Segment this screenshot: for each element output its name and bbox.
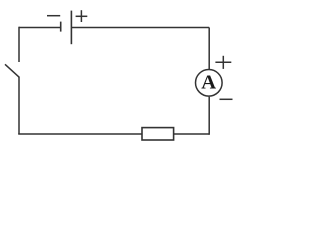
wire left upper segment [18,27,20,62]
wire right lower segment [208,97,210,135]
ammeter minus label [220,98,233,100]
wire top-left segment [19,27,60,29]
resistor R1 [142,128,174,140]
ammeter A1 circle [196,70,223,97]
wire left lower segment [18,77,20,134]
wire right upper segment [208,28,210,70]
wire bottom-right segment [174,133,210,135]
wire bottom-left segment [18,133,142,135]
battery minus label [47,15,60,17]
battery plus label [76,10,88,22]
switch S1 blade (open) [5,64,19,77]
ammeter plus label [215,56,231,69]
battery B1 positive long plate [70,11,72,45]
battery B1 negative short plate [60,22,62,32]
svg-text:A: A [201,72,216,94]
wire top-right segment [71,27,209,29]
